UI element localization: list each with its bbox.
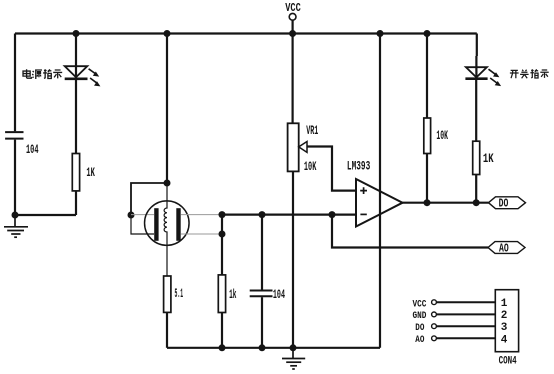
node: C2 junction bbox=[259, 211, 266, 218]
capacitor C2 104 bbox=[250, 291, 273, 297]
U1 plus sign bbox=[360, 187, 367, 194]
LED D1 (power indicator) bbox=[65, 66, 88, 79]
gas sensor MQ body bbox=[145, 201, 190, 246]
sensor left electrode plate bbox=[154, 208, 158, 241]
wire: R2 top stem bbox=[426, 34, 428, 119]
svg-text:5.1: 5.1 bbox=[175, 287, 184, 301]
wire: sensor VCC stem bbox=[166, 34, 168, 184]
resistor R5 5.1 bbox=[164, 276, 171, 312]
CON4 pin 3 terminal circle bbox=[432, 324, 437, 329]
node: right electrode bottom junction bbox=[219, 231, 226, 238]
connector CON4 body bbox=[495, 290, 518, 352]
wire: R1 bottom to ground row bbox=[75, 191, 77, 215]
VR1 wiper arrow bbox=[299, 142, 307, 153]
wire: C1 to ground node bbox=[14, 140, 16, 215]
U1 minus sign bbox=[360, 213, 366, 215]
wire: right electrode junctions to R4 bbox=[221, 215, 223, 275]
svg-text:10K: 10K bbox=[304, 160, 317, 174]
node: R3 bottom junction bbox=[473, 199, 480, 206]
node: left electrode junction bbox=[128, 212, 135, 219]
wire: rail corner to LED D2 bbox=[475, 34, 478, 79]
potentiometer VR1 body bbox=[288, 123, 299, 171]
wire: loop to left electrode bbox=[131, 183, 167, 215]
node: R4 bottom junction bbox=[219, 344, 226, 351]
node: left ground junction bbox=[12, 212, 19, 219]
wire: VR1 top stem bbox=[292, 34, 294, 124]
LED D2 (switch indicator) bbox=[465, 67, 487, 79]
bottom ground rail bbox=[167, 347, 380, 349]
node: rail junction at LED1 bbox=[73, 30, 80, 37]
wire: LED D1 cathode to R1 bbox=[75, 79, 77, 154]
wire: stub right electrode bottom bbox=[181, 233, 222, 235]
wire: AO branch bbox=[332, 215, 488, 248]
wire: sense row to comparator minus bbox=[222, 214, 356, 216]
wire: ground row to R1 bottom bbox=[15, 214, 76, 216]
sensor right electrode plate bbox=[176, 208, 180, 241]
node: rail junction at R2 bbox=[424, 30, 431, 37]
svg-text:3: 3 bbox=[501, 322, 508, 334]
svg-text:1K: 1K bbox=[483, 152, 494, 166]
node: ground junction bbox=[290, 344, 297, 351]
svg-text:104: 104 bbox=[26, 143, 39, 157]
svg-text:LM393: LM393 bbox=[347, 160, 370, 174]
label 电源指示 (power indicator) bbox=[23, 69, 62, 79]
svg-text:1: 1 bbox=[501, 298, 508, 310]
op-amp U1 LM393 comparator bbox=[356, 179, 403, 227]
label 开关指示 (switch indicator) bbox=[510, 69, 549, 78]
svg-text:10K: 10K bbox=[436, 129, 448, 143]
node: rail junction at x380 bbox=[377, 30, 384, 37]
svg-text:CON4: CON4 bbox=[499, 355, 517, 367]
CON4 pin 1 terminal circle bbox=[432, 300, 437, 305]
LED D1 light arrows bbox=[89, 69, 97, 83]
LED D2 light arrows bbox=[489, 69, 497, 83]
svg-text:GND: GND bbox=[413, 310, 427, 322]
resistor R2 10K bbox=[424, 118, 431, 154]
resistor R1 1K bbox=[72, 154, 79, 191]
resistor R3 1K bbox=[473, 141, 480, 174]
svg-text:1k: 1k bbox=[229, 288, 237, 302]
wire: stub right electrode top bbox=[181, 214, 222, 216]
wire: x380 vertical (VCC to comparator area) bbox=[379, 34, 381, 348]
capacitor C1 104 bbox=[5, 132, 23, 139]
wire: pin4 to CON4 bbox=[436, 337, 495, 339]
svg-text:DO: DO bbox=[499, 196, 509, 210]
wire: wiper to plus input bbox=[307, 147, 357, 191]
wire: pin2 to CON4 bbox=[436, 313, 495, 315]
wire: C2 stem top bbox=[261, 215, 263, 290]
svg-text:4: 4 bbox=[501, 334, 508, 346]
node: C2 bottom junction bbox=[259, 344, 266, 351]
wire: stub to left electrode top bbox=[131, 214, 154, 216]
wire: R3 bottom stem bbox=[475, 175, 477, 203]
wire: C2 stem bottom bbox=[261, 297, 263, 348]
node: minus input junction bbox=[329, 211, 336, 218]
CON4 pin 4 terminal circle bbox=[432, 336, 437, 341]
port flag DO bbox=[489, 197, 526, 209]
wire: R2 bottom stem bbox=[426, 154, 428, 203]
wire: left column down to C1 bbox=[14, 34, 16, 132]
sensor heater coil bbox=[164, 183, 167, 276]
svg-text:1K: 1K bbox=[86, 166, 95, 180]
node: rail junction at VCC/VR1 bbox=[289, 30, 296, 37]
node: right electrode top junction bbox=[219, 211, 226, 218]
wire: LED D2 cathode to R3 bbox=[475, 79, 477, 142]
svg-text:AO: AO bbox=[499, 241, 509, 255]
resistor R4 1k bbox=[218, 275, 225, 313]
ground (bottom) bbox=[282, 348, 305, 369]
svg-text:AO: AO bbox=[415, 334, 424, 346]
wire: R4 to bottom rail bbox=[221, 313, 223, 348]
wire: pin3 to CON4 bbox=[436, 325, 495, 327]
wire: VCC top rail bbox=[15, 32, 477, 34]
port flag AO bbox=[488, 242, 525, 254]
node: R2 bottom junction bbox=[424, 199, 431, 206]
svg-text:VR1: VR1 bbox=[306, 124, 318, 138]
wire: LED D1 anode stem bbox=[75, 34, 77, 79]
ground (left) bbox=[4, 215, 28, 237]
wire: pin1 to CON4 bbox=[436, 301, 495, 303]
wire: comparator output to DO bbox=[403, 202, 489, 204]
wire: VR1 bottom to ground rail bbox=[292, 171, 294, 347]
svg-text:104: 104 bbox=[273, 288, 285, 302]
VCC terminal circle bbox=[289, 13, 296, 20]
svg-text:VCC: VCC bbox=[285, 1, 301, 15]
svg-text:VCC: VCC bbox=[413, 298, 427, 310]
svg-text:DO: DO bbox=[415, 322, 424, 334]
svg-text:2: 2 bbox=[501, 310, 508, 322]
CON4 pin 2 terminal circle bbox=[432, 312, 437, 317]
node: rail junction at sensor bbox=[164, 30, 171, 37]
wire: R5 to bottom rail bbox=[166, 312, 168, 347]
node: sensor top junction bbox=[164, 180, 171, 187]
wire: VCC stem bbox=[292, 20, 294, 33]
